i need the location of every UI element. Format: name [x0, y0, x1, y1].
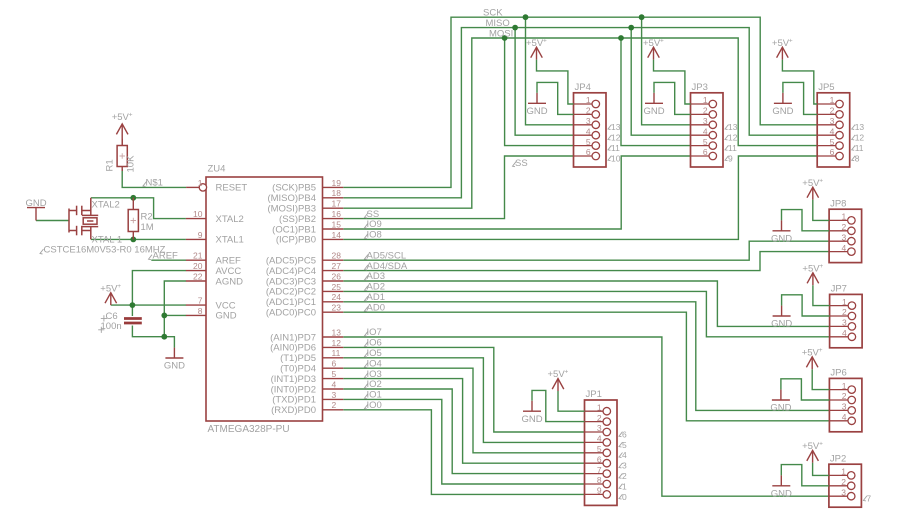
svg-text:JP6: JP6	[830, 368, 846, 379]
svg-text:3: 3	[842, 318, 847, 328]
ground for JP2	[772, 475, 790, 485]
svg-text:19: 19	[332, 178, 342, 188]
svg-text:(RXD)PD0: (RXD)PD0	[271, 405, 316, 416]
svg-text:CSTCE16M0V53-R0 16MHZ: CSTCE16M0V53-R0 16MHZ	[44, 245, 166, 256]
svg-text:GND: GND	[527, 106, 548, 117]
svg-text:3: 3	[842, 402, 847, 412]
net label 9 at JP3 pin 6	[725, 156, 729, 161]
svg-text:AVCC: AVCC	[216, 266, 242, 277]
pin 3 of JP4	[574, 124, 593, 126]
svg-text:10K: 10K	[126, 155, 137, 173]
svg-text:5: 5	[332, 369, 337, 379]
wire +5V to JP4 pin1	[537, 60, 574, 104]
svg-text:(ADC0)PC0: (ADC0)PC0	[266, 308, 316, 319]
pin 17 (MOSI)PB3 (IC right)	[323, 207, 344, 209]
svg-text:GND: GND	[644, 106, 665, 117]
pin 3 of JP3	[691, 124, 710, 126]
junction SCK/JP4	[523, 14, 529, 20]
pin 27 (ADC4)PC4 (IC right)	[323, 270, 344, 272]
pin 5 of JP1	[585, 452, 604, 454]
wire net IO1/1 (PD1 to JP1 pin8)	[343, 399, 584, 484]
pin 15 (OC1)PB1 (IC right)	[323, 228, 344, 230]
svg-text:2: 2	[332, 400, 337, 410]
+5V supply for JP7	[807, 273, 819, 285]
svg-text:AD3: AD3	[367, 271, 385, 282]
pin 1 of JP2	[829, 474, 848, 476]
svg-text:6: 6	[332, 359, 337, 369]
junction SCK/JP3	[639, 14, 645, 20]
svg-text:2: 2	[703, 106, 708, 116]
wire net MOSI branch to JP4 pin5	[505, 38, 574, 146]
svg-text:100n: 100n	[101, 321, 122, 332]
svg-text:+: +	[129, 111, 133, 118]
pin 1 of JP4	[574, 103, 593, 105]
junction XTAL2/R2	[130, 195, 136, 201]
svg-text:(T1)PD5: (T1)PD5	[280, 353, 316, 364]
connector JP6 body	[829, 378, 862, 431]
svg-text:3: 3	[841, 487, 846, 497]
net label 12 at JP4 pin 4	[608, 135, 612, 140]
pin 2 of JP3	[691, 113, 710, 115]
net label IO3	[365, 373, 369, 378]
wire net IO3/3 (PD3 to JP1 pin6)	[343, 379, 584, 464]
wire net +5V to C6 top	[131, 305, 133, 316]
net label 12 at JP5 pin 4	[852, 135, 856, 140]
pin 8 of JP1	[585, 483, 604, 485]
wire net IO2/2 (PD2 to JP1 pin7)	[343, 389, 584, 474]
svg-text:26: 26	[332, 271, 342, 281]
svg-text:MOSI: MOSI	[489, 28, 513, 39]
junction XTAL1/R2	[130, 237, 136, 243]
net label IO5	[365, 352, 369, 357]
net label AD5/SCL	[365, 255, 369, 260]
svg-text:IO4: IO4	[367, 358, 382, 369]
svg-text:+5V: +5V	[802, 347, 820, 358]
wire net IO0/0 (PD0 to JP1 pin9)	[343, 410, 584, 495]
pin 10 XTAL2 (IC left)	[186, 218, 206, 220]
svg-text:20: 20	[193, 261, 203, 271]
svg-text:(OC1)PB1: (OC1)PB1	[272, 224, 316, 235]
connector JP5 body	[817, 93, 850, 167]
resonator CSTCE16M0V53-R0 (crystal + caps)	[69, 198, 98, 240]
+5V supply for JP4	[531, 47, 543, 59]
svg-text:6: 6	[622, 429, 627, 439]
wire GND to JP2 pin2	[781, 465, 829, 486]
svg-text:3: 3	[841, 232, 846, 242]
svg-text:0: 0	[622, 492, 627, 502]
wire +5V to JP5 pin1	[782, 60, 817, 104]
svg-text:JP7: JP7	[831, 284, 847, 295]
svg-text:(INT0)PD2: (INT0)PD2	[271, 384, 316, 395]
svg-text:2: 2	[842, 391, 847, 401]
svg-text:GND: GND	[771, 488, 792, 499]
wire net XTAL1	[91, 238, 186, 240]
svg-text:+5V: +5V	[100, 283, 118, 294]
svg-text:1: 1	[703, 95, 708, 105]
svg-text:2: 2	[597, 413, 602, 423]
svg-text:IO8: IO8	[367, 230, 382, 241]
connector JP8 body	[829, 209, 862, 262]
pin 7 of JP1	[585, 473, 604, 475]
pin 3 (TXD)PD1 (IC right)	[323, 398, 344, 400]
net label AD4/SDA	[365, 265, 369, 270]
wire +5V to JP6 pin1	[812, 369, 829, 389]
pin 1 of JP6	[829, 389, 848, 391]
+5V supply for JP5	[777, 47, 789, 59]
pin 23 (ADC0)PC0 (IC right)	[323, 311, 344, 313]
wire GND to JP6 pin2	[781, 379, 830, 400]
svg-text:7: 7	[198, 296, 203, 306]
svg-text:GND: GND	[772, 106, 793, 117]
pin 24 (ADC1)PC1 (IC right)	[323, 301, 344, 303]
net label AD1	[365, 296, 369, 301]
svg-text:12: 12	[611, 133, 621, 143]
svg-text:JP2: JP2	[830, 453, 846, 464]
svg-text:(SCK)PB5: (SCK)PB5	[272, 183, 316, 194]
+5V supply for R1	[116, 124, 128, 146]
svg-text:(ADC3)PC3: (ADC3)PC3	[266, 276, 316, 287]
pin 21 AREF (IC left)	[186, 259, 206, 261]
wire net IO9/9 (PB1 to JP3 pin6)	[343, 156, 690, 229]
wire net GND pin8	[164, 314, 186, 316]
svg-text:12: 12	[332, 338, 342, 348]
svg-text:1: 1	[841, 467, 846, 477]
net label 3 at JP1 pin 6	[619, 463, 623, 468]
connector JP4 body	[574, 93, 607, 167]
svg-text:AD5/SCL: AD5/SCL	[367, 250, 407, 261]
svg-text:+5V: +5V	[112, 112, 130, 123]
pin 2 of JP2	[829, 485, 848, 487]
svg-text:IO2: IO2	[367, 379, 382, 390]
pin 3 of JP6	[829, 409, 848, 411]
net label SS	[365, 213, 369, 218]
svg-text:27: 27	[332, 261, 342, 271]
net label 4 at JP1 pin 5	[619, 453, 623, 458]
wire net IO7/7 (PD7 to JP2 pin3)	[343, 337, 829, 496]
svg-text:(MISO)PB4: (MISO)PB4	[267, 193, 316, 204]
svg-text:IO9: IO9	[367, 219, 382, 230]
wire net IO5/5 (PD5 to JP1 pin4)	[343, 358, 584, 443]
svg-text:11: 11	[611, 143, 620, 153]
wire net GND to resonator	[36, 220, 69, 222]
svg-text:(AIN0)PD6: (AIN0)PD6	[270, 343, 316, 354]
svg-text:8: 8	[198, 306, 203, 316]
svg-text:ATMEGA328P-PU: ATMEGA328P-PU	[208, 424, 290, 435]
pin 12 (AIN0)PD6 (IC right)	[323, 346, 344, 348]
svg-text:9: 9	[597, 486, 602, 496]
net label 13 at JP4 pin 3	[608, 125, 612, 130]
svg-text:1: 1	[198, 178, 203, 188]
wire +5V to JP3 pin1	[654, 60, 691, 104]
svg-text:(ADC1)PC1: (ADC1)PC1	[266, 297, 316, 308]
svg-text:4: 4	[703, 126, 708, 136]
net label 6 at JP1 pin 3	[619, 432, 623, 437]
svg-text:XTAL2: XTAL2	[92, 200, 120, 211]
resistor R1	[121, 139, 123, 171]
svg-text:JP4: JP4	[575, 82, 591, 93]
capacitor C6	[124, 317, 142, 320]
svg-text:+: +	[660, 37, 664, 44]
pin 13 (AIN1)PD7 (IC right)	[323, 336, 344, 338]
svg-text:11: 11	[728, 143, 737, 153]
svg-text:AD0: AD0	[367, 302, 385, 313]
svg-text:3: 3	[703, 116, 708, 126]
svg-text:JP5: JP5	[818, 82, 834, 93]
svg-text:SS: SS	[515, 158, 528, 169]
svg-text:13: 13	[855, 122, 865, 132]
pin 20 AVCC (IC left)	[186, 270, 206, 272]
svg-text:13: 13	[332, 327, 342, 337]
wire GND to JP8 pin2	[782, 210, 830, 231]
svg-text:6: 6	[830, 147, 835, 157]
wire net +5V to VCC	[111, 304, 186, 306]
svg-text:ZU4: ZU4	[208, 164, 226, 175]
svg-text:2: 2	[830, 106, 835, 116]
pin 3 of JP1	[585, 431, 604, 433]
svg-text:3: 3	[830, 116, 835, 126]
net label AREF	[149, 255, 153, 260]
net label IO7	[365, 331, 369, 336]
svg-text:4: 4	[597, 434, 602, 444]
svg-text:+5V: +5V	[772, 38, 790, 49]
svg-text:4: 4	[586, 126, 591, 136]
svg-text:23: 23	[332, 303, 342, 313]
svg-text:22: 22	[193, 271, 203, 281]
svg-text:(INT1)PD3: (INT1)PD3	[271, 374, 316, 385]
svg-text:(AIN1)PD7: (AIN1)PD7	[270, 332, 316, 343]
pin 6 (T0)PD4 (IC right)	[323, 367, 344, 369]
svg-text:4: 4	[841, 243, 846, 253]
svg-text:+5V: +5V	[526, 38, 544, 49]
wire +5V to JP7 pin1	[813, 285, 830, 305]
svg-text:4: 4	[830, 126, 835, 136]
net label 11 at JP4 pin 5	[608, 145, 612, 150]
pin 14 (ICP)PB0 (IC right)	[323, 238, 344, 240]
pin 18 (MISO)PB4 (IC right)	[323, 197, 344, 199]
net label AD3	[365, 275, 369, 280]
pin 16 (SS)PB2 (IC right)	[323, 218, 344, 220]
svg-text:C6: C6	[106, 311, 118, 322]
pin 6 of JP4	[574, 155, 593, 157]
net label 13 at JP5 pin 3	[852, 125, 856, 130]
svg-text:1: 1	[597, 402, 602, 412]
svg-text:4: 4	[622, 450, 627, 460]
svg-text:8: 8	[855, 153, 860, 163]
pin 3 of JP7	[830, 325, 849, 327]
svg-text:AGND: AGND	[216, 276, 244, 287]
wire GND to JP1 pin2	[532, 390, 585, 421]
svg-text:18: 18	[332, 188, 342, 198]
svg-text:14: 14	[332, 230, 342, 240]
svg-text:+: +	[789, 37, 793, 44]
net label N$1	[143, 182, 147, 187]
pin 2 of JP7	[830, 315, 849, 317]
pin 19 (SCK)PB5 (IC right)	[323, 186, 344, 188]
pin 4 of JP4	[574, 134, 593, 136]
svg-text:+5V: +5V	[802, 441, 820, 452]
svg-text:11: 11	[332, 348, 341, 358]
svg-text:3: 3	[586, 116, 591, 126]
svg-text:15: 15	[332, 219, 342, 229]
pin 4 of JP1	[585, 441, 604, 443]
svg-text:6: 6	[586, 147, 591, 157]
+5V supply for JP8	[807, 187, 819, 199]
pin 6 of JP3	[691, 155, 710, 157]
net label AD0	[365, 307, 369, 312]
+5V supply for JP3	[648, 47, 660, 59]
wire net GND branch AGND	[164, 281, 186, 337]
connector JP7 body	[830, 294, 863, 347]
net label 5 at JP1 pin 4	[619, 442, 623, 447]
pin 2 of JP1	[585, 421, 604, 423]
svg-text:+5V: +5V	[548, 369, 566, 380]
pin 4 of JP3	[691, 134, 710, 136]
svg-text:+: +	[819, 347, 823, 354]
svg-text:1: 1	[842, 297, 847, 307]
ground for JP5	[774, 93, 792, 103]
+5V supply for JP2	[807, 450, 819, 462]
net label 12 at JP3 pin 4	[725, 135, 729, 140]
pin 4 (INT0)PD2 (IC right)	[323, 388, 344, 390]
wire net IO4/4 (PD4 to JP1 pin5)	[343, 368, 584, 453]
svg-text:28: 28	[332, 251, 342, 261]
svg-text:GND: GND	[771, 233, 792, 244]
wire net AD3 (PC3 to JP7 pin3)	[343, 281, 829, 326]
svg-text:7: 7	[597, 465, 602, 475]
wire net MOSI branch to JP3 pin5	[621, 38, 691, 146]
pin 26 (ADC3)PC3 (IC right)	[323, 280, 344, 282]
svg-text:IO3: IO3	[367, 369, 382, 380]
pin 25 (ADC2)PC2 (IC right)	[323, 290, 344, 292]
+5V supply for JP6	[806, 357, 818, 369]
svg-text:13: 13	[611, 122, 621, 132]
wire net SCK (PB5 to bus to JP5 pin3)	[343, 17, 817, 187]
svg-text:SCK: SCK	[483, 8, 503, 19]
pin 3 of JP8	[829, 240, 848, 242]
wire net IO6/6 (PD6 to JP1 pin3)	[343, 347, 584, 432]
svg-text:11: 11	[855, 143, 864, 153]
svg-text:R1: R1	[105, 159, 116, 171]
svg-text:13: 13	[728, 122, 738, 132]
wire net SS/10 (PB2 to JP4 pin6)	[343, 156, 573, 219]
junction +5V/VCC/AVCC/C6	[130, 302, 136, 308]
wire GND to JP4 pin2	[537, 82, 574, 114]
svg-text:JP3: JP3	[692, 82, 708, 93]
svg-text:AD2: AD2	[367, 282, 385, 293]
wire net GND from C6 bottom	[132, 326, 174, 348]
connector JP1 body	[585, 400, 618, 505]
svg-text:IO7: IO7	[367, 327, 382, 338]
pin 4 of JP8	[829, 251, 848, 253]
svg-text:17: 17	[332, 199, 342, 209]
svg-text:9: 9	[728, 153, 733, 163]
svg-text:1M: 1M	[141, 222, 154, 233]
svg-text:5: 5	[703, 137, 708, 147]
svg-text:AD1: AD1	[367, 292, 385, 303]
pin 9 XTAL1 (IC left)	[186, 238, 206, 240]
svg-text:(ADC5)PC5: (ADC5)PC5	[266, 256, 316, 267]
svg-text:(TXD)PD1: (TXD)PD1	[272, 395, 316, 406]
svg-text:1: 1	[830, 95, 835, 105]
wire GND to JP3 pin2	[654, 82, 691, 114]
svg-text:+: +	[543, 37, 547, 44]
svg-text:12: 12	[728, 133, 738, 143]
pin 2 of JP5	[817, 113, 836, 115]
net label 13 at JP3 pin 3	[725, 125, 729, 130]
svg-text:4: 4	[842, 328, 847, 338]
+5V supply for JP1	[552, 379, 564, 391]
ground for JP7	[773, 306, 791, 316]
svg-text:N$1: N$1	[146, 178, 163, 189]
svg-text:2: 2	[841, 222, 846, 232]
wire net SCK branch to JP3 pin3	[642, 17, 691, 125]
svg-text:(ICP)PB0: (ICP)PB0	[276, 235, 316, 246]
svg-text:XTAL2: XTAL2	[216, 214, 244, 225]
svg-text:12: 12	[855, 133, 865, 143]
pin 1 RESET (IC left)	[186, 186, 199, 188]
ground for JP6	[772, 390, 790, 400]
svg-text:JP1: JP1	[586, 389, 602, 400]
svg-text:SS: SS	[367, 209, 380, 220]
net label 11 at JP5 pin 5	[852, 145, 856, 150]
net label IO0	[365, 404, 369, 409]
svg-text:3: 3	[597, 423, 602, 433]
svg-text:10: 10	[611, 153, 621, 163]
svg-text:24: 24	[332, 292, 342, 302]
svg-text:3: 3	[332, 390, 337, 400]
svg-text:6: 6	[597, 454, 602, 464]
svg-text:2: 2	[841, 477, 846, 487]
svg-text:+: +	[819, 177, 823, 184]
pin 7 VCC (IC left)	[186, 304, 206, 306]
svg-text:(MOSI)PB3: (MOSI)PB3	[267, 204, 316, 215]
pin 4 of JP5	[817, 134, 836, 136]
svg-text:MISO: MISO	[486, 18, 510, 29]
svg-text:1: 1	[842, 381, 847, 391]
resistor R2	[132, 198, 134, 240]
wire net AD5/SCL (PC5 to JP8 pin3)	[343, 241, 829, 260]
net label 0 at JP1 pin 9	[619, 494, 623, 499]
pin 5 of JP4	[574, 145, 593, 147]
svg-text:1: 1	[841, 212, 846, 222]
net label 1 at JP1 pin 8	[619, 484, 623, 489]
pin 4 of JP6	[829, 420, 848, 422]
svg-text:IO6: IO6	[367, 338, 382, 349]
ground at resonator	[27, 208, 45, 221]
junction MOSI/JP4	[502, 35, 508, 41]
wire net AD2 (PC2 to JP7 pin4)	[343, 291, 829, 336]
wire net N$1 (R1 to RESET)	[122, 169, 186, 187]
pin 2 of JP8	[829, 230, 848, 232]
svg-text:(T0)PD4: (T0)PD4	[280, 364, 316, 375]
wire net AD1 (PC1 to JP6 pin3)	[343, 302, 829, 411]
svg-text:IO5: IO5	[367, 348, 382, 359]
connector JP3 body	[691, 93, 724, 167]
pin 22 AGND (IC left)	[186, 280, 206, 282]
ground for JP4	[528, 93, 546, 103]
pin 2 of JP6	[829, 399, 848, 401]
svg-text:8: 8	[597, 475, 602, 485]
svg-text:IO1: IO1	[367, 390, 382, 401]
wire +5V to JP1 pin1	[558, 391, 585, 411]
svg-text:+: +	[117, 283, 121, 290]
svg-text:XTAL1: XTAL1	[216, 235, 244, 246]
wire net XTAL2	[91, 198, 186, 219]
pin 8 GND (IC left)	[186, 314, 206, 316]
svg-text:16: 16	[332, 209, 342, 219]
net label 7 at JP2 pin 3	[863, 496, 867, 501]
value CSTCE16M0V53-R0 16MHZ	[40, 249, 44, 254]
